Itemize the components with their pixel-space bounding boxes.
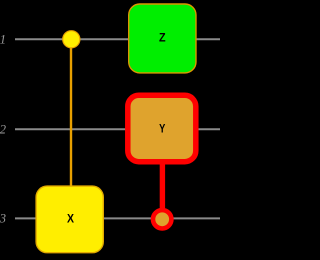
gate X box [36, 186, 103, 253]
target ring on wire 3 [153, 210, 171, 228]
qubit wire 1 [15, 38, 220, 40]
gate Z box [129, 4, 196, 73]
svg-text:2: 2 [0, 122, 6, 136]
control line from dot to gate X [70, 44, 72, 187]
svg-text:X: X [67, 214, 74, 226]
gate Y box [128, 95, 196, 161]
control dot on wire 1 [63, 31, 80, 48]
control line from gate Y to target ring [160, 158, 165, 212]
qubit wire 3 [15, 217, 220, 219]
qubit wire 2 [15, 128, 220, 130]
svg-text:Z: Z [159, 33, 166, 45]
svg-text:Y: Y [159, 124, 165, 136]
svg-text:1: 1 [0, 32, 6, 46]
svg-text:3: 3 [0, 212, 6, 226]
